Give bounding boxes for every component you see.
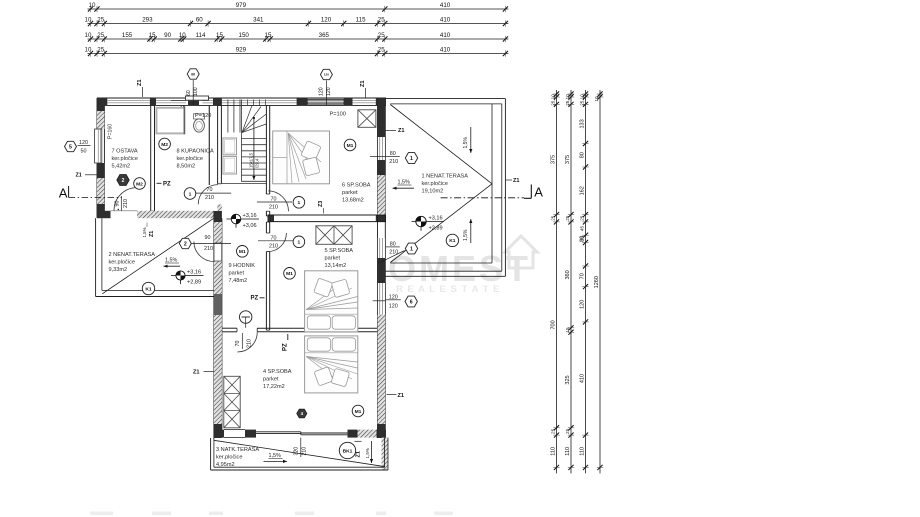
svg-text:25: 25 xyxy=(378,47,385,54)
svg-text:1,5%: 1,5% xyxy=(463,229,469,241)
svg-text:10: 10 xyxy=(594,96,599,102)
terrace 1 (right) outline xyxy=(385,99,506,277)
svg-text:410: 410 xyxy=(440,17,451,24)
bathroom counter/shower xyxy=(157,108,185,134)
window 120x120 (P=100) top xyxy=(308,99,344,104)
svg-text:45: 45 xyxy=(579,226,584,232)
terrace 3 (bottom) outline xyxy=(211,438,388,470)
svg-text:5: 5 xyxy=(69,144,72,150)
svg-text:325: 325 xyxy=(565,375,571,384)
svg-text:+3,16: +3,16 xyxy=(243,213,257,219)
svg-text:M1: M1 xyxy=(355,409,362,415)
svg-text:25: 25 xyxy=(550,428,555,434)
svg-text:100: 100 xyxy=(193,87,199,96)
svg-text:5,42m2: 5,42m2 xyxy=(112,164,131,170)
Z1 marker right of terrace1 xyxy=(506,179,512,181)
svg-text:BK1: BK1 xyxy=(343,448,353,454)
svg-text:210: 210 xyxy=(205,195,214,201)
svg-text:9 HODNIK: 9 HODNIK xyxy=(229,263,256,269)
svg-text:25: 25 xyxy=(97,17,104,24)
svg-text:parket: parket xyxy=(342,190,358,196)
hexagon dark ostava xyxy=(117,175,129,186)
svg-text:ker.pločice: ker.pločice xyxy=(109,260,135,266)
marker M1 bedroom6 xyxy=(344,139,356,151)
marker K1 terasa2 xyxy=(142,282,154,294)
svg-text:700: 700 xyxy=(550,320,556,329)
svg-text:210: 210 xyxy=(246,339,252,348)
svg-text:155: 155 xyxy=(122,32,133,39)
svg-text:parket: parket xyxy=(229,271,245,277)
door arc: ostava xyxy=(114,188,137,211)
svg-text:375: 375 xyxy=(565,155,571,164)
wall: ostava/terasa2 bottom xyxy=(97,211,214,218)
svg-text:P=160: P=160 xyxy=(108,124,114,139)
svg-text:25: 25 xyxy=(378,32,385,39)
watermark xyxy=(388,236,537,295)
svg-text:210: 210 xyxy=(123,199,129,208)
svg-text:25: 25 xyxy=(378,17,385,24)
svg-text:A: A xyxy=(534,185,543,200)
svg-text:4 SP.SOBA: 4 SP.SOBA xyxy=(263,369,292,375)
marker K1 terasa1 xyxy=(446,234,458,246)
svg-text:R E A L E S T A T E: R E A L E S T A T E xyxy=(396,284,501,295)
svg-text:90: 90 xyxy=(114,201,120,207)
svg-text:10: 10 xyxy=(85,17,92,24)
svg-text:60: 60 xyxy=(191,72,195,76)
svg-text:979: 979 xyxy=(236,2,247,9)
svg-text:210: 210 xyxy=(204,246,213,252)
svg-text:+3,16: +3,16 xyxy=(429,216,443,222)
svg-text:M1: M1 xyxy=(286,271,293,277)
svg-text:1260: 1260 xyxy=(594,276,600,288)
svg-text:60: 60 xyxy=(196,17,203,24)
door arc: terasa2-hodnik xyxy=(194,242,214,262)
svg-text:4,95m2: 4,95m2 xyxy=(216,462,235,468)
svg-text:15: 15 xyxy=(565,327,570,333)
svg-text:70: 70 xyxy=(271,235,277,241)
door 2 terasa2 + 90/210 xyxy=(179,238,191,248)
svg-text:3 NATK.TERASA: 3 NATK.TERASA xyxy=(216,447,259,453)
svg-text:M1: M1 xyxy=(347,143,354,149)
svg-text:360: 360 xyxy=(565,270,571,279)
door arc: bedroom5 xyxy=(268,233,287,252)
bottom cropped marks xyxy=(90,512,453,516)
wall: bathroom right partition xyxy=(208,105,210,185)
svg-text:25,10: 25,10 xyxy=(565,94,570,106)
door arc: bathroom lobby xyxy=(198,185,218,205)
svg-text:7,48m2: 7,48m2 xyxy=(229,278,248,284)
wall: right exterior (x378) xyxy=(378,98,386,438)
top dimension lines xyxy=(85,2,509,57)
wall: doorway jamb above hodnik xyxy=(217,204,222,211)
svg-text:+2,89: +2,89 xyxy=(187,280,201,286)
svg-text:+3,16: +3,16 xyxy=(187,270,201,276)
svg-text:parket: parket xyxy=(263,377,279,383)
svg-text:110: 110 xyxy=(565,447,571,456)
svg-text:1,5%: 1,5% xyxy=(142,227,147,237)
staircase xyxy=(222,100,266,184)
svg-text:ker.pločice: ker.pločice xyxy=(216,455,242,461)
wall: stair right / bedroom6 left xyxy=(265,105,267,194)
window P=160 left wall xyxy=(95,129,102,163)
terrace 2 diagonal xyxy=(102,218,213,293)
wall: stair left xyxy=(217,105,219,183)
wall: middle horizontal (under bedroom 6) xyxy=(268,215,387,222)
level symbol terasa2 +3,16/+2,89 xyxy=(171,275,204,277)
svg-text:25: 25 xyxy=(579,215,584,221)
svg-text:1: 1 xyxy=(189,191,192,197)
wardrobe bedroom 5 xyxy=(316,226,352,245)
svg-text:6: 6 xyxy=(410,299,413,305)
svg-text:410: 410 xyxy=(440,32,451,39)
svg-text:25: 25 xyxy=(565,428,570,434)
stair direction arrow xyxy=(253,119,255,180)
svg-text:120: 120 xyxy=(321,17,332,24)
svg-text:M2: M2 xyxy=(136,181,143,187)
svg-text:1,5%: 1,5% xyxy=(165,258,177,264)
svg-text:1,5%: 1,5% xyxy=(365,448,370,458)
terrace 2 (left) outline xyxy=(96,218,214,296)
svg-text:1: 1 xyxy=(298,200,301,206)
wall: ostava-kupaonica partition xyxy=(150,105,152,211)
svg-text:120: 120 xyxy=(324,73,329,77)
wall: toilet partition xyxy=(180,105,182,133)
svg-text:ker.pločice: ker.pločice xyxy=(112,156,138,162)
svg-text:110: 110 xyxy=(550,447,556,456)
marker M1 bedroom5 xyxy=(284,268,296,280)
marker M2 ostava xyxy=(134,178,146,190)
svg-text:114: 114 xyxy=(196,32,206,39)
svg-text:115: 115 xyxy=(356,17,366,24)
svg-text:341: 341 xyxy=(253,17,264,24)
svg-text:8,50m2: 8,50m2 xyxy=(177,164,196,170)
wall: bedroom5/bedroom4 partition xyxy=(222,328,380,332)
svg-text:7 OSTAVA: 7 OSTAVA xyxy=(112,149,138,155)
svg-text:210: 210 xyxy=(269,205,278,211)
svg-text:10: 10 xyxy=(85,47,92,54)
door arc: bedroom4 xyxy=(237,332,257,352)
hexagon 5 window 120/50 label (far left) xyxy=(65,141,77,151)
svg-text:120: 120 xyxy=(326,87,332,96)
svg-text:15: 15 xyxy=(216,32,223,39)
svg-text:1 NENAT.TERASA: 1 NENAT.TERASA xyxy=(422,174,469,180)
svg-text:1,5%: 1,5% xyxy=(398,180,410,186)
Z1 marker lower-right xyxy=(387,394,397,396)
wardrobe bedroom 4 xyxy=(224,376,240,428)
svg-text:15: 15 xyxy=(149,32,156,39)
window 60x100 above stairs xyxy=(186,96,209,100)
svg-text:10: 10 xyxy=(179,32,186,39)
svg-text:365: 365 xyxy=(319,32,330,39)
svg-text:320: 320 xyxy=(294,447,300,456)
svg-text:162: 162 xyxy=(579,186,585,195)
svg-text:120: 120 xyxy=(79,140,88,146)
toilet xyxy=(194,114,205,119)
wardrobe bedroom 6 xyxy=(358,110,376,128)
svg-text:70: 70 xyxy=(235,341,241,347)
svg-text:25,10: 25,10 xyxy=(579,94,584,106)
svg-text:70: 70 xyxy=(207,187,213,193)
svg-text:Z3: Z3 xyxy=(318,201,324,207)
svg-text:P=120: P=120 xyxy=(195,113,211,119)
marker M1 bedroom4 xyxy=(352,405,364,417)
svg-text:9,33m2: 9,33m2 xyxy=(109,267,128,273)
svg-text:70: 70 xyxy=(271,197,277,203)
bed bedroom 6 xyxy=(273,131,330,184)
svg-text:133: 133 xyxy=(579,119,585,128)
svg-text:25: 25 xyxy=(550,215,555,221)
svg-text:210: 210 xyxy=(389,159,398,165)
terrace3 right edge hatch xyxy=(382,438,389,470)
svg-text:15: 15 xyxy=(265,32,272,39)
svg-text:6 SP.SOBA: 6 SP.SOBA xyxy=(342,183,371,189)
svg-text:80: 80 xyxy=(579,152,585,158)
door arc: bedroom6 xyxy=(268,191,288,211)
svg-text:Z1: Z1 xyxy=(398,128,405,134)
svg-text:1,5%: 1,5% xyxy=(463,137,469,149)
svg-text:+2,89: +2,89 xyxy=(429,226,443,232)
svg-text:1: 1 xyxy=(298,240,301,246)
svg-text:K1: K1 xyxy=(449,238,456,244)
svg-text:25: 25 xyxy=(97,32,104,39)
svg-text:120: 120 xyxy=(319,87,325,96)
svg-text:10: 10 xyxy=(85,32,92,39)
svg-text:Z1: Z1 xyxy=(513,178,520,184)
balcony door BK1 sill xyxy=(256,431,301,433)
svg-text:410: 410 xyxy=(579,374,585,383)
level symbol hodnik +3,16/+3,06 xyxy=(227,218,260,220)
svg-text:M1: M1 xyxy=(239,249,246,255)
svg-text:210: 210 xyxy=(302,447,308,456)
svg-text:8 KUPAONICA: 8 KUPAONICA xyxy=(177,149,214,155)
hexagon 120/120 (top window) xyxy=(320,69,332,79)
svg-text:410: 410 xyxy=(440,47,451,54)
bed bedroom 4 xyxy=(305,336,358,393)
svg-text:ker.pločice: ker.pločice xyxy=(177,156,203,162)
svg-text:120: 120 xyxy=(579,300,585,309)
svg-text:2 NENAT.TERASA: 2 NENAT.TERASA xyxy=(109,252,156,258)
svg-text:110: 110 xyxy=(579,447,585,456)
svg-text:210: 210 xyxy=(269,244,278,250)
drain symbol hodnik xyxy=(240,311,252,323)
svg-text:25: 25 xyxy=(97,47,104,54)
svg-text:15x17,5: 15x17,5 xyxy=(248,152,253,168)
svg-text:375: 375 xyxy=(550,155,556,164)
svg-text:ker.pločice: ker.pločice xyxy=(422,181,448,187)
wall: lower-left exterior (x214) xyxy=(214,211,222,438)
svg-text:5 SP.SOBA: 5 SP.SOBA xyxy=(325,248,354,254)
bed bedroom 5 xyxy=(305,271,358,332)
svg-text:25: 25 xyxy=(579,236,584,242)
marker M2 bathroom xyxy=(159,138,171,150)
svg-text:2: 2 xyxy=(122,178,125,184)
svg-text:1,5%: 1,5% xyxy=(269,453,281,459)
svg-text:410: 410 xyxy=(440,2,451,9)
svg-text:293: 293 xyxy=(142,17,153,24)
svg-text:13,14m2: 13,14m2 xyxy=(325,263,347,269)
svg-text:Z1: Z1 xyxy=(76,173,82,179)
svg-text:60: 60 xyxy=(186,90,192,96)
section line A (right) xyxy=(441,197,524,199)
terrace 1 diagonals xyxy=(390,105,492,184)
level symbol terasa1 +3,16/+2,89 xyxy=(412,221,445,223)
svg-text:17,22m2: 17,22m2 xyxy=(263,384,285,390)
svg-text:Z1: Z1 xyxy=(149,231,155,237)
svg-text:A: A xyxy=(59,186,68,201)
marker M1 hodnik xyxy=(237,246,249,258)
svg-text:929: 929 xyxy=(236,47,247,54)
svg-text:parket: parket xyxy=(325,256,341,262)
svg-text:Z1: Z1 xyxy=(360,80,366,87)
svg-text:+3,06: +3,06 xyxy=(243,223,257,229)
svg-text:210: 210 xyxy=(389,250,398,256)
terrace 3 diagonal xyxy=(214,440,385,466)
svg-text:PZ: PZ xyxy=(163,182,171,188)
svg-text:Z1: Z1 xyxy=(137,79,143,86)
svg-text:70: 70 xyxy=(579,273,585,279)
hexagon dark bedroom4 xyxy=(297,409,307,418)
svg-text:M2: M2 xyxy=(161,142,168,148)
svg-text:10: 10 xyxy=(89,2,96,9)
right dimension lines xyxy=(550,90,603,473)
svg-text:Z1: Z1 xyxy=(398,393,405,399)
shaft boxes beside stairs xyxy=(223,138,237,155)
svg-text:2: 2 xyxy=(184,241,187,247)
svg-text:120: 120 xyxy=(389,303,398,309)
svg-text:Z1: Z1 xyxy=(193,370,200,376)
svg-text:1: 1 xyxy=(410,156,413,162)
svg-text:K1: K1 xyxy=(145,286,152,292)
svg-text:25: 25 xyxy=(565,215,570,221)
svg-text:13,68m2: 13,68m2 xyxy=(342,198,364,204)
hexagon 60/100 (top, stairs window) xyxy=(187,69,199,79)
wall: hodnik right (bedrooms 5) xyxy=(265,222,267,233)
svg-text:P=100: P=100 xyxy=(330,112,346,118)
door 1 bathroom + 70/210 xyxy=(184,188,196,200)
wall: bottom exterior xyxy=(214,430,386,438)
svg-text:50: 50 xyxy=(81,149,87,155)
svg-text:Z1: Z1 xyxy=(355,451,361,458)
svg-text:1: 1 xyxy=(410,246,413,252)
svg-text:25,10: 25,10 xyxy=(550,94,555,106)
wall: left exterior xyxy=(97,98,104,218)
wall: top exterior xyxy=(97,98,386,105)
marker BK1 balcony door xyxy=(339,442,355,458)
svg-text:PZ: PZ xyxy=(283,343,289,351)
svg-text:PZ: PZ xyxy=(251,296,259,302)
svg-text:19,10m2: 19,10m2 xyxy=(422,189,444,195)
svg-text:150: 150 xyxy=(239,32,250,39)
svg-text:90: 90 xyxy=(205,235,211,241)
svg-text:/29,4: /29,4 xyxy=(254,158,259,168)
svg-text:90: 90 xyxy=(164,32,171,39)
